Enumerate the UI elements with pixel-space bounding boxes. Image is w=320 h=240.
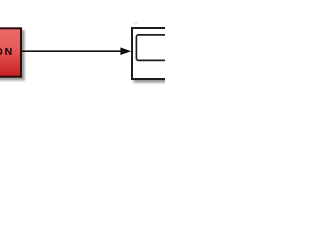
scope screen [136, 35, 176, 61]
svg-text:O: O [0, 46, 3, 58]
subsystem block U1 (red, clipped at left edge) [0, 28, 21, 76]
faint smudge above scope [133, 22, 138, 24]
scope block (clipped at right edge) [132, 28, 177, 79]
svg-text:N: N [5, 46, 13, 58]
arrowhead into Scope [120, 47, 131, 55]
wire [21, 50, 124, 52]
